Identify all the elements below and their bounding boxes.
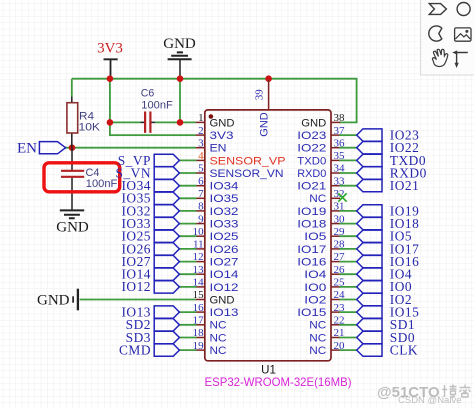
svg-text:39: 39 (253, 89, 265, 101)
svg-text:IO13: IO13 (210, 307, 239, 319)
svg-text:GND: GND (56, 220, 89, 236)
svg-text:IO26: IO26 (210, 244, 239, 256)
pin 33 (IO21) right (297, 175, 419, 193)
svg-text:C6: C6 (141, 88, 155, 100)
wire GND flag to pin15 (80, 299, 196, 301)
toolbar panel (421, 0, 474, 75)
icon leader line (452, 50, 468, 68)
junction dot (110,122) (107, 119, 114, 126)
pin 29 (IO5) right (304, 226, 412, 244)
svg-text:15: 15 (193, 289, 205, 301)
svg-text:IO12: IO12 (121, 279, 151, 294)
pin 6 (IO34) left (121, 175, 238, 193)
svg-text:NC: NC (210, 345, 227, 357)
svg-text:GND: GND (301, 117, 326, 129)
ground GND (top, inverted earth) (163, 36, 196, 79)
svg-text:GND: GND (210, 117, 235, 129)
junction dot (72,148) (69, 144, 76, 151)
pin 18 (NC) left (126, 327, 227, 345)
svg-text:IO23: IO23 (297, 130, 326, 142)
svg-text:EN: EN (17, 141, 37, 157)
svg-text:IO15: IO15 (297, 307, 326, 319)
junction dot (180,79) (177, 75, 184, 82)
pin 37 (IO23) right (297, 125, 419, 143)
svg-text:CSDN @Naive: CSDN @Naive (398, 395, 462, 406)
icon hand (432, 49, 447, 66)
svg-text:GND: GND (37, 293, 70, 309)
svg-text:NC: NC (309, 332, 326, 344)
svg-text:NC: NC (309, 320, 326, 332)
pin 27 (IO16) right (297, 251, 419, 269)
pin 25 (IO0) right (304, 277, 412, 295)
svg-text:100nF: 100nF (86, 178, 118, 190)
svg-text:6: 6 (198, 175, 204, 187)
pin 5 (SENSOR_VN) left (116, 163, 284, 181)
svg-text:IO27: IO27 (210, 256, 239, 268)
power flag 3V3 (97, 41, 123, 79)
wire 3V3 vertical drop to C6 row and pin2 (110, 79, 196, 135)
junction dot (180,122) (177, 119, 184, 126)
svg-text:CMD: CMD (119, 343, 151, 358)
pin 12 (IO27) left (121, 251, 238, 269)
pin 22 (NC) right (309, 315, 415, 333)
pin 38 (GND) right (301, 112, 345, 129)
pin 4 (SENSOR_VP) left (118, 150, 286, 168)
pin 26 (IO4) right (304, 264, 412, 282)
svg-text:GND: GND (163, 36, 196, 52)
svg-text:IO21: IO21 (297, 181, 326, 193)
svg-text:2: 2 (198, 125, 204, 137)
pin 36 (IO22) right (297, 137, 419, 155)
pin 24 (IO2) right (304, 289, 412, 307)
svg-text:IO21: IO21 (390, 178, 420, 193)
net port GND (to pin 15) (37, 289, 78, 311)
svg-text:IO5: IO5 (304, 231, 326, 243)
wire GND symbol drop to C6 right node (179, 79, 181, 123)
svg-text:38: 38 (334, 112, 346, 124)
svg-text:3: 3 (198, 137, 204, 149)
junction dot (269,79) (265, 75, 272, 82)
svg-text:IO12: IO12 (210, 282, 239, 294)
pin 1 (GND) left (196, 112, 235, 129)
svg-text:GND: GND (259, 112, 271, 137)
pin 30 (IO18) right (297, 213, 419, 231)
pin 23 (IO15) right (297, 302, 419, 320)
svg-text:IO32: IO32 (210, 206, 239, 218)
capacitor C4 100nF (61, 148, 118, 210)
svg-text:IO17: IO17 (297, 244, 326, 256)
svg-text:3V3: 3V3 (210, 130, 234, 142)
svg-text:IO22: IO22 (297, 143, 326, 155)
pin 14 (IO12) left (121, 277, 238, 295)
svg-text:4: 4 (198, 150, 204, 162)
icon image (455, 28, 471, 41)
icon circle (457, 3, 470, 16)
icon arc pacman (429, 26, 442, 41)
svg-text:SENSOR_VP: SENSOR_VP (210, 155, 286, 167)
svg-text:GND: GND (210, 294, 235, 306)
pin 3 (EN) left (196, 137, 227, 154)
svg-text:ESP32-WROOM-32E(16MB): ESP32-WROOM-32E(16MB) (205, 375, 352, 389)
pin 21 (NC) right (309, 327, 415, 345)
op-amp/IC U1 body ESP32-WROOM-32E (205, 110, 331, 361)
svg-text:8: 8 (198, 201, 204, 213)
svg-text:7: 7 (198, 188, 204, 200)
svg-text:NC: NC (210, 320, 227, 332)
pin 7 (IO35) left (121, 188, 238, 206)
resistor R4 10K (67, 97, 101, 148)
pin 16 (IO13) left (121, 302, 238, 320)
svg-text:1: 1 (198, 112, 204, 124)
pin 19 (NC) left (119, 340, 227, 358)
svg-text:EN: EN (210, 143, 227, 155)
wire C6 row to pin1 (110, 121, 196, 123)
svg-text:NC: NC (309, 345, 326, 357)
svg-text:NC: NC (309, 193, 326, 205)
pin 13 (IO14) left (121, 264, 238, 282)
pin 28 (IO17) right (297, 239, 419, 257)
pin 17 (NC) left (126, 315, 227, 333)
wire 3V3 rail to GND rail (top horizontal net) (72, 79, 357, 123)
svg-text:5: 5 (198, 163, 204, 175)
svg-text:IO16: IO16 (297, 256, 326, 268)
watermark 51CTO (377, 384, 471, 401)
junction dot (110,79) (107, 75, 114, 82)
svg-text:IO19: IO19 (297, 206, 326, 218)
pin 9 (IO33) left (121, 213, 238, 231)
svg-text:RXD0: RXD0 (297, 168, 326, 180)
pin 20 (NC) right (309, 340, 418, 358)
pin 2 (3V3) left (196, 125, 234, 142)
pin 11 (IO26) left (121, 239, 238, 257)
pin 1 marker dot (209, 114, 214, 119)
ground GND (below C4) (56, 210, 89, 235)
pin 15 (GND) left (193, 289, 235, 306)
svg-text:IO25: IO25 (210, 231, 239, 243)
svg-text:IO4: IO4 (304, 269, 326, 281)
svg-text:IO0: IO0 (304, 282, 326, 294)
icon chevron arrow (429, 4, 446, 15)
pin 32 (NC) right (309, 188, 346, 205)
pin 8 (IO32) left (121, 201, 238, 219)
net flag EN (17, 141, 66, 157)
svg-text:IO14: IO14 (210, 269, 239, 281)
pin 35 (TXD0) right (297, 150, 426, 168)
svg-text:CLK: CLK (390, 343, 418, 358)
svg-text:IO18: IO18 (297, 219, 326, 231)
pin 39 (GND) top (253, 80, 270, 137)
wire EN node to pin3 (65, 147, 196, 149)
svg-text:9: 9 (198, 213, 204, 225)
highlight box around C4 (44, 163, 120, 192)
svg-text:IO35: IO35 (210, 193, 239, 205)
capacitor C6 100nF (141, 88, 174, 133)
svg-text:SENSOR_VN: SENSOR_VN (210, 168, 284, 180)
pin 10 (IO25) left (121, 226, 238, 244)
svg-text:TXD0: TXD0 (297, 155, 326, 167)
svg-text:IO2: IO2 (304, 294, 326, 306)
svg-text:IO33: IO33 (210, 219, 239, 231)
wire rail corner down to R4 top (71, 79, 73, 97)
svg-text:IO34: IO34 (210, 181, 239, 193)
pin 31 (IO19) right (297, 201, 419, 219)
pin 34 (RXD0) right (297, 163, 426, 181)
svg-text:10K: 10K (79, 122, 101, 134)
svg-text:100nF: 100nF (141, 100, 173, 112)
svg-text:3V3: 3V3 (97, 41, 123, 57)
svg-text:NC: NC (210, 332, 227, 344)
